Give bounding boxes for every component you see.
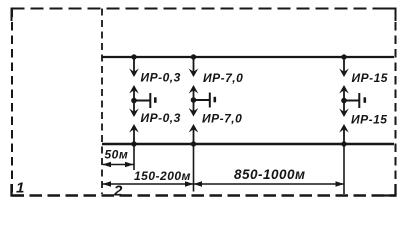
node dot top col3 (341, 54, 346, 59)
svg-text:50м: 50м (105, 148, 129, 162)
boundary dashed frame right (395, 9, 397, 196)
arrow down lower col1 (133, 101, 135, 114)
dashed divider line (net 2 boundary) (101, 9, 103, 195)
extension line below col3 (343, 146, 345, 194)
svg-text:ИР-7,0: ИР-7,0 (203, 71, 243, 85)
dimension 850-1000m line (194, 181, 345, 186)
boundary dashed frame bottom (12, 194, 397, 197)
column 1: IR-0,3 measurement line at x=134 (129, 54, 155, 146)
extension line below col1 (133, 146, 135, 170)
bottom wire (lower long line) (102, 143, 394, 145)
node dot center col2 (191, 97, 197, 103)
boundary dashed frame left (11, 9, 13, 196)
svg-text:ИР-0,3: ИР-0,3 (141, 111, 181, 125)
arrow up to center col1 (133, 88, 135, 101)
arrow down lower col3 (343, 101, 345, 114)
arrow down lower col2 (193, 100, 195, 113)
arrow down upper col2 (193, 57, 195, 74)
frame corner bottom-left (12, 184, 25, 196)
frame corner top-right (384, 9, 396, 22)
frame corner bottom-right (384, 184, 396, 196)
svg-text:ИР-15: ИР-15 (352, 71, 388, 85)
column 2: IR-7,0 measurement line at x=193.5 (189, 54, 215, 146)
dimension 150-200m line (103, 181, 194, 186)
arrow up bottom col1 (133, 127, 135, 145)
svg-text:850-1000м: 850-1000м (234, 167, 306, 182)
node dot top col2 (191, 54, 196, 59)
battery symbol col2 (194, 99, 210, 101)
node dot top col1 (131, 54, 136, 59)
arrow down upper col1 (133, 57, 135, 74)
node dot center col1 (131, 98, 137, 104)
arrow down upper col3 (343, 57, 345, 74)
arrow up to center col2 (193, 88, 195, 101)
boundary dashed frame top (12, 8, 397, 10)
arrow up bottom col3 (343, 127, 345, 145)
frame corner top-left (12, 9, 25, 22)
battery symbol col1 (134, 100, 150, 102)
node dot bottom col3 (341, 141, 346, 146)
node dot bottom col1 (131, 141, 136, 146)
svg-text:ИР-15: ИР-15 (351, 113, 387, 127)
svg-text:ИР-0,3: ИР-0,3 (141, 71, 181, 85)
svg-text:150-200м: 150-200м (134, 169, 191, 183)
svg-text:1: 1 (16, 180, 25, 197)
dimension 50m line (103, 162, 134, 167)
node dot center col3 (341, 98, 347, 104)
arrow up bottom col2 (193, 127, 195, 145)
extension line below col2 (193, 146, 195, 192)
column 3: IR-15 measurement line at x=344 (339, 54, 365, 146)
svg-text:ИР-7,0: ИР-7,0 (202, 112, 242, 126)
top wire (upper long line) (102, 56, 394, 58)
svg-text:2: 2 (113, 183, 123, 200)
node dot bottom col2 (191, 141, 196, 146)
arrow up to center col3 (343, 88, 345, 101)
battery symbol col3 (344, 100, 359, 102)
